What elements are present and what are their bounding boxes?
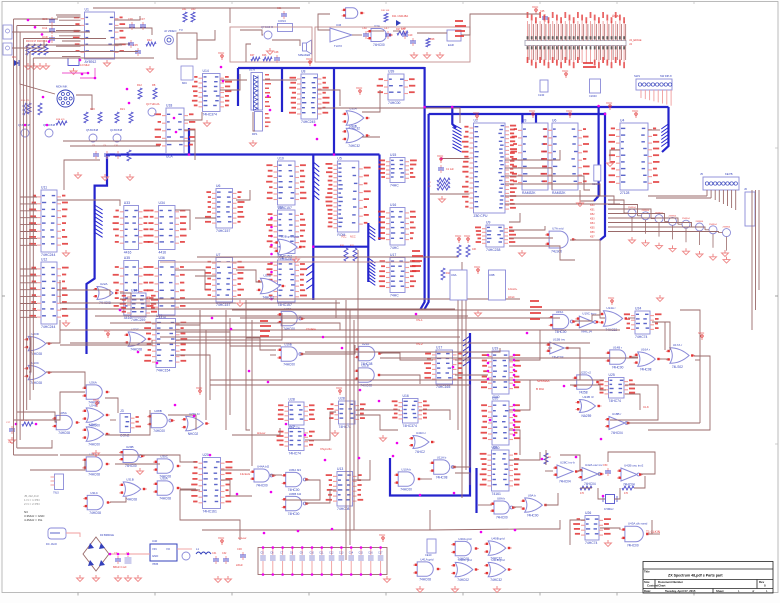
svg-text:74HC08: 74HC08 [30, 381, 42, 385]
Z80 right wire 5 [505, 196, 614, 204]
U27 out wire 1 [176, 310, 201, 325]
svg-text:4.0 MHz: 4.0 MHz [80, 63, 90, 67]
long horizontal net 7 [70, 342, 590, 344]
section box opamp [315, 27, 470, 62]
svg-text:C12: C12 [329, 552, 334, 555]
svg-text:74LS02: 74LS02 [672, 365, 683, 369]
R10 res [441, 268, 451, 280]
svg-text:CLK: CLK [643, 405, 649, 409]
caps C36 C37 [128, 17, 146, 30]
svg-text:J6: J6 [744, 187, 747, 191]
svg-text:C16: C16 [368, 552, 373, 555]
and out wire 2 [380, 375, 420, 384]
transistor base wire 5 [608, 218, 678, 224]
gate link bl3 [110, 497, 126, 502]
keyb pin drop 1 [706, 190, 708, 196]
grounds under resistor network [25, 63, 50, 70]
svg-text:2N3904: 2N3904 [723, 227, 731, 229]
svg-text:74HC00: 74HC00 [496, 516, 508, 520]
inv to osc [577, 470, 583, 472]
long right wire [570, 240, 605, 318]
svg-text:VCC: VCC [532, 5, 539, 9]
top-left horizontal wire 3 [20, 31, 90, 33]
left wire up [29, 160, 31, 190]
net labels center [412, 250, 423, 272]
cassette jacks left edge [3, 25, 12, 55]
IC Z80 CPU [462, 119, 517, 219]
nand to or wire [575, 315, 600, 321]
svg-text:U10: U10 [278, 157, 284, 161]
svg-text:74HC244: 74HC244 [41, 253, 55, 257]
svg-text:U21A: U21A [362, 342, 370, 346]
svg-text:U9A b: U9A b [528, 493, 537, 497]
svg-text:74HC74: 74HC74 [635, 335, 648, 339]
wire to U25A [17, 412, 57, 422]
address bus vertical right [424, 114, 429, 310]
svg-text:74HC165: 74HC165 [436, 385, 450, 389]
gate out wire 2 [362, 136, 380, 138]
R42 resistor [146, 38, 156, 46]
buffer to gate wire [318, 90, 341, 106]
svg-text:U13: U13 [337, 467, 343, 471]
net mid 5 [210, 379, 604, 381]
IC U33 ram a [113, 201, 150, 255]
svg-text:KB4: KB4 [590, 222, 595, 225]
to counter wire [455, 374, 488, 376]
red label vs2 [416, 342, 423, 346]
svg-text:220uF: 220uF [236, 564, 243, 567]
shift out wire [455, 359, 470, 361]
U11 pin wire 4 [20, 217, 37, 219]
svg-text:VCC: VCC [336, 386, 343, 390]
svg-text:VS-1: VS-1 [416, 318, 423, 322]
top-left horizontal wire 6 [30, 51, 138, 53]
opamp feedback wire [318, 14, 330, 30]
svg-text:TL072: TL072 [334, 44, 342, 48]
svg-text:U26A: U26A [89, 380, 97, 384]
bus drop to Z80 data pins [452, 107, 456, 128]
gate link bl2 [180, 488, 196, 490]
svg-text:U15A: U15A [556, 310, 564, 314]
audio out wire [371, 30, 384, 32]
svg-text:U23C: U23C [131, 327, 140, 331]
transistor Q amp [182, 552, 190, 560]
scattered junction dots mid [119, 309, 603, 445]
red label vs [416, 318, 423, 322]
Z80 right wire 1 [505, 150, 560, 160]
into U27 wire 1 [60, 329, 156, 331]
svg-text:2N3904: 2N3904 [642, 210, 650, 212]
gate 13C out [46, 372, 85, 388]
right ff chain [660, 322, 670, 350]
inv feed b [545, 470, 553, 472]
svg-text:R8: R8 [152, 83, 156, 87]
wire gate feed [29, 337, 31, 372]
svg-text:2 N = 2 PIN: 2 N = 2 PIN [24, 502, 40, 506]
transistor base wire 1 [608, 200, 624, 213]
svg-text:74HC374: 74HC374 [403, 424, 417, 428]
svg-text:4416: 4416 [124, 251, 132, 255]
svg-text:C14: C14 [349, 552, 354, 555]
svg-text:U15B inv: U15B inv [553, 338, 566, 342]
IC U19 cnt1 [481, 347, 521, 400]
U11 pin wire 5 [20, 224, 37, 226]
scattered junction dots top [79, 59, 319, 141]
pullup resistors RG1 RG2 [455, 234, 477, 257]
osc resistors R51 R52 [580, 486, 634, 495]
bottom up wire [429, 510, 431, 530]
gate U19C inv r [575, 312, 599, 334]
net to right ff 1 [232, 310, 600, 315]
svg-text:Q8 BC548: Q8 BC548 [43, 123, 56, 127]
svg-text:U14: U14 [203, 69, 209, 73]
ULA vcc rail wires [63, 141, 195, 146]
gate U18B r [605, 412, 631, 435]
red label chdata [306, 327, 316, 331]
bus fan vd lower [368, 258, 375, 285]
center vertical net 5 [225, 310, 227, 430]
long horizontal net 3 [95, 315, 468, 317]
transistor Q7 speaker drv [261, 25, 274, 39]
svg-text:VSyncfix: VSyncfix [320, 447, 332, 451]
ff chain [356, 415, 398, 430]
gate U28B [147, 409, 175, 433]
svg-text:MIC: MIC [182, 81, 187, 85]
osc loop wire [608, 452, 655, 474]
svg-text:J2 VIDEO: J2 VIDEO [164, 29, 177, 33]
svg-text:VCC: VCC [93, 398, 100, 402]
gate U22B [256, 274, 285, 300]
top rail wire [93, 7, 300, 9]
U12 to gate wire [57, 290, 110, 296]
IC RAM U2 [510, 119, 560, 196]
svg-text:R2B 476: R2B 476 [56, 119, 65, 121]
svg-text:10K: 10K [472, 248, 477, 251]
svg-text:U40C grid: U40C grid [458, 558, 472, 562]
gate U23E bl [182, 412, 210, 436]
svg-text:C31: C31 [212, 552, 217, 555]
bottom rail right [521, 520, 560, 529]
ear wire [12, 31, 48, 33]
svg-text:U28: U28 [339, 397, 345, 401]
svg-text:74HC08: 74HC08 [130, 348, 142, 352]
grounds power [77, 575, 142, 582]
svg-text:T1 CLKIN: T1 CLKIN [646, 530, 661, 534]
ff to latch wire [356, 409, 400, 411]
b chain 2 [455, 473, 470, 485]
wire to U26A [14, 392, 86, 420]
svg-text:74HC04: 74HC04 [552, 355, 564, 359]
svg-text:U28: U28 [289, 398, 295, 402]
long horizontal net 8 [120, 298, 520, 300]
svg-text:VCC: VCC [474, 265, 481, 269]
long horizontal net 2 [60, 308, 455, 310]
svg-text:74HC: 74HC [390, 246, 399, 250]
cnt to b [509, 430, 520, 455]
diode to buffer wire [263, 79, 298, 81]
edge connector J4 [525, 12, 642, 68]
svg-text:27128: 27128 [620, 191, 630, 195]
svg-text:74HC00: 74HC00 [88, 443, 100, 447]
IC U25 ff right2 [598, 373, 635, 403]
svg-text:74HC2: 74HC2 [415, 450, 425, 454]
keyb vertical wire 1 [751, 190, 753, 330]
ff feed wire [232, 428, 280, 435]
svg-text:U12: U12 [41, 258, 47, 262]
ROM left wire [610, 150, 620, 160]
center vertical net 1 [345, 300, 347, 560]
gate U15A [549, 310, 577, 334]
svg-text:C19: C19 [408, 34, 413, 37]
keyb right conn [744, 187, 755, 226]
svg-text:CE10: CE10 [425, 553, 432, 557]
svg-text:VCC: VCC [306, 57, 313, 61]
data bus horizontal top [238, 67, 425, 69]
keyb vertical wire 2 [755, 190, 757, 310]
bottom bus loop [390, 333, 470, 496]
svg-text:C13: C13 [339, 552, 344, 555]
svg-text:74HC259: 74HC259 [131, 318, 145, 322]
nand feed 2 [246, 338, 276, 350]
wire to AY pin 3 [62, 24, 81, 26]
gate U41D c [409, 431, 435, 454]
wire to AY pin 8 [59, 50, 81, 52]
svg-text:R16 R17 R18 R19: R16 R17 R18 R19 [26, 39, 48, 43]
Z80 RD wire [509, 246, 575, 260]
speaker wire [272, 40, 300, 46]
svg-text:2N3904: 2N3904 [696, 221, 704, 223]
svg-text:RAM32K: RAM32K [552, 191, 566, 195]
spk r wire [246, 44, 251, 62]
AY out wire [115, 43, 131, 45]
svg-text:B RGI: B RGI [536, 387, 544, 391]
keyboard resistor block [252, 112, 263, 137]
svg-text:C2040: C2040 [589, 94, 597, 98]
address bus vertical left [420, 67, 425, 310]
ff feed r wire [628, 317, 635, 319]
svg-text:U9: U9 [486, 221, 490, 225]
svg-text:L1: L1 [196, 547, 200, 551]
svg-text:2N3904: 2N3904 [669, 215, 677, 217]
long horizontal net 4 [110, 322, 340, 324]
keyb pin drop 6 [727, 190, 729, 206]
gate U3B gnd gate [274, 235, 303, 261]
kbd latch wire [220, 74, 240, 90]
IC U30 hc259 [120, 289, 158, 323]
svg-text:74HC00: 74HC00 [555, 330, 567, 334]
ULA supply caps [92, 145, 131, 161]
IC U12b mux3 [267, 256, 307, 308]
svg-text:R46: R46 [262, 54, 267, 57]
svg-text:VCC: VCC [356, 86, 363, 90]
osc r wire 2 [634, 476, 645, 488]
svg-text:U17: U17 [436, 346, 442, 350]
svg-text:U14A r: U14A r [606, 306, 615, 310]
U12 pin wire 2 [20, 275, 37, 277]
bus fan to Z80 D pins [453, 124, 462, 152]
wire to AY pin 5 [59, 35, 81, 37]
svg-text:U19: U19 [492, 347, 498, 351]
svg-text:Asta: Asta [612, 14, 619, 18]
svg-text:VCC: VCC [566, 109, 573, 113]
svg-text:U5: U5 [337, 157, 341, 161]
text notes bottom left [24, 494, 45, 522]
gate U26A [82, 380, 110, 404]
gate U9A b [521, 493, 549, 517]
svg-text:74HC244: 74HC244 [41, 325, 55, 329]
transistor row labels [628, 207, 731, 229]
svg-text:R47: R47 [250, 54, 255, 57]
speaker drive wire [240, 30, 263, 35]
top-left horizontal wire 4 [23, 38, 106, 40]
U12 pin wire 4 [20, 289, 37, 291]
svg-text:J3: J3 [120, 409, 124, 413]
net labels mid [260, 320, 271, 337]
RST wire [442, 158, 470, 160]
svg-text:HiLow: HiLow [238, 536, 247, 540]
svg-text:NHC02: NHC02 [188, 432, 199, 436]
transistor base wire 3 [608, 209, 651, 219]
svg-text:U1: U1 [85, 8, 89, 12]
svg-text:U28B: U28B [154, 409, 162, 413]
gate U7A mid [545, 227, 576, 254]
svg-text:U31: U31 [492, 446, 498, 450]
bus drop right 2 [600, 113, 605, 241]
R10 R11 under U5 [340, 235, 357, 262]
vert net l2 [205, 330, 207, 420]
vert net l3 [246, 300, 250, 430]
resistors R23 R21 R20 [27, 103, 133, 123]
IC U14 kbd latch [192, 69, 232, 117]
nand loop wire [286, 480, 320, 500]
gate U14A r [599, 306, 628, 332]
svg-text:470: 470 [624, 492, 629, 495]
C small block 2 [538, 80, 548, 97]
IC U16 col2 [378, 203, 416, 250]
svg-text:74258: 74258 [579, 391, 588, 395]
AND out to CON2 [105, 398, 118, 413]
IC U26 ff left edge [573, 511, 611, 545]
left band up [59, 280, 61, 303]
wire to AY pin 4 [56, 30, 81, 32]
red labels right of diode block [265, 74, 271, 107]
cap C39 mid top [401, 26, 408, 39]
junction dots top-left [27, 19, 51, 43]
red label hilow2 [257, 431, 266, 435]
svg-text:74HC00: 74HC00 [283, 363, 295, 367]
svg-text:470: 470 [580, 492, 585, 495]
ula down wire [184, 130, 195, 160]
svg-text:VCC: VCC [698, 331, 705, 335]
svg-text:74HC00: 74HC00 [283, 327, 295, 331]
long horizontal net 5 [140, 329, 620, 331]
bus fan vd to U13 [313, 162, 319, 200]
R50 resistor [544, 453, 551, 464]
osc feed [560, 455, 580, 470]
gate U30A [153, 476, 181, 500]
bottom rail left [202, 529, 265, 531]
U12 pin wire 8 [20, 316, 37, 318]
svg-text:VCC: VCC [379, 533, 386, 537]
svg-text:C35: C35 [133, 43, 138, 47]
svg-text:U41D c: U41D c [416, 431, 427, 435]
U12 pin wire 7 [20, 309, 37, 311]
gate chain wire [105, 410, 150, 435]
crystal X2 [68, 58, 90, 75]
svg-text:U29B: U29B [126, 445, 134, 449]
svg-text:74HC238: 74HC238 [486, 248, 500, 252]
svg-text:VCC: VCC [464, 234, 471, 238]
svg-text:RAM32K: RAM32K [522, 191, 536, 195]
mux feed wire 2 [195, 217, 216, 219]
mux out wire [236, 190, 250, 200]
gate U29A [82, 452, 110, 476]
svg-text:74HC: 74HC [390, 184, 399, 188]
svg-text:U31B: U31B [126, 477, 134, 481]
drop to CON3 [229, 8, 231, 23]
svg-text:VS-2: VS-2 [416, 342, 423, 346]
ULA to latch wire [184, 112, 202, 120]
top-left horizontal wire 2 [17, 25, 74, 27]
gate out wire 1 [362, 90, 380, 112]
IC U29b ff [278, 398, 315, 431]
svg-text:74HC04: 74HC04 [559, 480, 571, 484]
svg-text:VCC: VCC [473, 111, 480, 115]
svg-text:U33B: U33B [349, 124, 357, 128]
svg-text:KB7: KB7 [590, 236, 595, 239]
svg-text:U4: U4 [620, 119, 624, 123]
or out [545, 493, 558, 505]
U13 out wire [353, 460, 371, 480]
to con2 wire [110, 419, 116, 421]
bus horizontal to ROM [425, 106, 669, 108]
svg-text:74HC04: 74HC04 [611, 431, 623, 435]
svg-text:C10: C10 [310, 552, 315, 555]
svg-text:9.5MHz: 9.5MHz [604, 507, 614, 511]
dot column counter 2 [513, 404, 516, 437]
svg-text:U15: U15 [390, 153, 396, 157]
net to right ff 2 [240, 317, 560, 319]
gate U45B bl4 [282, 492, 310, 516]
C13 block [592, 165, 601, 186]
C31 C32 caps left [212, 552, 229, 564]
U11 pin wire 6 [20, 231, 37, 233]
left bundle bend 1 [14, 454, 59, 456]
right ff down [625, 394, 640, 410]
svg-text:2N3904: 2N3904 [709, 224, 717, 226]
R27 resistor [396, 28, 408, 35]
U11 pin wire 7 [20, 237, 37, 239]
svg-text:74HC08: 74HC08 [640, 368, 652, 372]
svg-text:74LS00: 74LS00 [551, 249, 562, 253]
svg-text:VCC: VCC [218, 51, 225, 55]
gate U21B [354, 363, 382, 387]
gate U33A [342, 106, 370, 130]
Z80 right wire 4 [505, 184, 600, 196]
svg-text:ZX Spectrum 48,pdf s Parts pa: ZX Spectrum 48,pdf s Parts part [668, 574, 723, 578]
transistor base wire 7 [608, 227, 705, 230]
b nand feed [478, 504, 492, 506]
IC U5 ROM2 [325, 157, 370, 238]
svg-text:VCC: VCC [606, 101, 613, 105]
ff link wire [305, 412, 336, 440]
IC U20b cnt [191, 453, 232, 514]
gate U10A b [394, 467, 422, 491]
inv out r wire [626, 422, 700, 424]
svg-text:U9A: U9A [451, 273, 457, 277]
svg-text:U44A bl2: U44A bl2 [257, 465, 270, 469]
svg-text:12ms0+: 12ms0+ [508, 287, 518, 291]
